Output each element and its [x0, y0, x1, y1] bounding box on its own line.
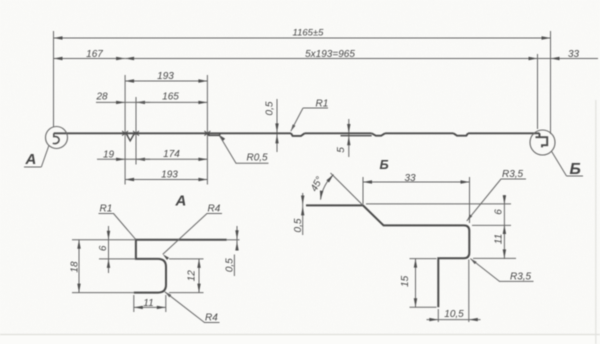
page right edge line [595, 100, 597, 344]
extension line notch1 right x=136 [135, 97, 137, 165]
detail callout circle А [46, 127, 68, 149]
wire segment D [385, 132, 454, 134]
detail B profile [306, 205, 469, 307]
dimension 19 [97, 150, 150, 161]
left end hook [53, 133, 59, 143]
dimension 11 (detail B) [494, 225, 507, 258]
dimension 174 [136, 149, 207, 161]
dimension 6 (detail B) [493, 195, 506, 259]
extension line notch2 x=207.4 [206, 75, 208, 185]
detail A profile [134, 240, 227, 293]
wire segment B [136, 132, 291, 134]
leader R4 (upper) [162, 204, 222, 260]
dimension 18 [70, 240, 81, 293]
leader R4 (lower) [164, 291, 220, 324]
dimension 0,5 (detail B) [293, 193, 305, 235]
dimension 167 [54, 49, 126, 60]
dimension 11 [134, 298, 166, 309]
dimension 0,5 (lip thickness) [225, 226, 239, 276]
paper noise overlay [0, 0, 1, 1]
dimension 6 [98, 226, 110, 273]
oblique tick marks at notch 1 and notch 2 [122, 131, 210, 136]
dimension 15 [400, 259, 417, 308]
extension line right end x=550.5 [550, 31, 552, 134]
leader R3,5 (lower) [469, 257, 533, 282]
leader R1 [289, 98, 328, 132]
dimension 5 (groove width) [336, 119, 351, 157]
notch 3 groove (R1) [291, 133, 305, 136]
extension line notch1 left x=125.1 [124, 75, 126, 185]
dimension 193 (lower) [125, 170, 207, 182]
callout Б leader [552, 151, 567, 176]
detail B extension lines [363, 177, 516, 322]
right end hook [536, 133, 548, 147]
dimension 33 (top right) [538, 49, 599, 60]
45 degree construction line [331, 173, 364, 205]
dimension 0,5 (thickness, top view) [265, 99, 279, 152]
notch 2 lower face (R0,5 step) [208, 134, 220, 136]
page bottom edge line [0, 334, 600, 336]
dimension 28 [95, 91, 150, 104]
wire segment E [468, 132, 540, 134]
callout А leader [41, 146, 49, 168]
dimension 165 [136, 91, 207, 104]
wire segment A [54, 132, 136, 134]
leader R3,5 (upper) [466, 169, 526, 222]
dimension 5x193=965 [125, 49, 537, 60]
notch 5 groove [372, 133, 385, 135]
angle arc 45° [321, 175, 334, 200]
detail A extension lines [72, 240, 240, 312]
leader R0,5 [218, 134, 269, 164]
groove lower face at dim 5 [341, 135, 372, 137]
wire segment C [305, 132, 372, 134]
dimension 10,5 [427, 309, 481, 322]
dimension 193 (upper) [125, 71, 207, 83]
extension line right x=537.5 [537, 54, 539, 129]
dimension 1165±5 [54, 28, 551, 40]
notch 1 V cut [127, 134, 134, 140]
detail callout circle Б [530, 130, 555, 155]
dimension 33 (detail B) [363, 173, 470, 184]
extension line left end x=53.5 [53, 31, 55, 127]
leader R1 (detail A) [99, 204, 136, 240]
notch 6 groove [454, 133, 469, 135]
dimension 12 [187, 259, 201, 293]
profile main line (side view of strip) [53, 133, 547, 147]
